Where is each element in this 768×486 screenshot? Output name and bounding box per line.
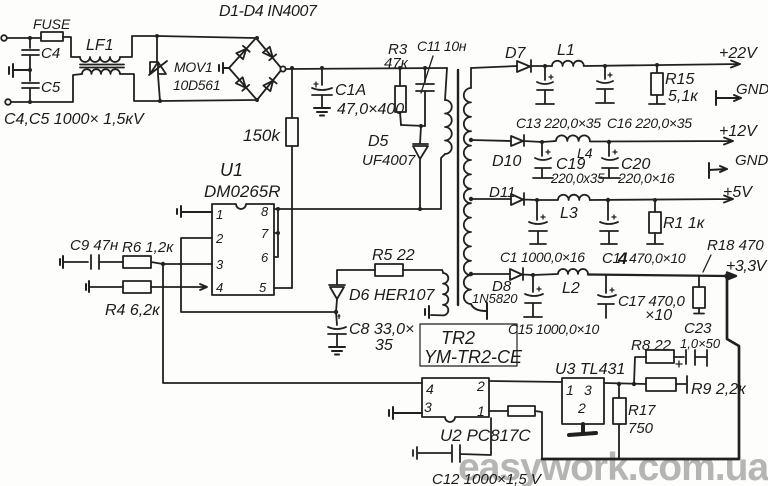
transformer TR2 primary <box>445 68 447 100</box>
wire +12V rail with arrow <box>590 138 733 145</box>
wire thick 3.3V feedback <box>542 276 739 459</box>
wire sec tap to D8 <box>471 273 510 275</box>
svg-text:C23: C23 <box>684 320 712 337</box>
transformer TR2 secondary <box>470 68 472 88</box>
capacitor C19 <box>546 150 550 154</box>
wire R3 C11 join <box>401 125 425 126</box>
svg-text:D5: D5 <box>368 133 389 150</box>
transformer TR2 aux winding <box>431 270 448 315</box>
ground U2 pin3 <box>389 407 422 419</box>
diode D3 <box>236 77 249 90</box>
svg-text:7: 7 <box>261 226 269 241</box>
svg-text:C1A: C1A <box>335 82 366 99</box>
wire drain line <box>278 208 441 210</box>
svg-text:R15: R15 <box>665 71 694 88</box>
svg-text:U1: U1 <box>220 160 243 180</box>
svg-text:D7: D7 <box>505 45 527 62</box>
svg-text:×10: ×10 <box>645 307 672 324</box>
svg-text:220,0х35: 220,0х35 <box>550 171 605 186</box>
svg-text:8: 8 <box>261 204 269 219</box>
capacitor C13 <box>549 75 553 79</box>
svg-text:5,1к: 5,1к <box>668 88 699 105</box>
wire sec top to D7 <box>471 66 517 68</box>
svg-text:3: 3 <box>216 257 224 272</box>
svg-text:UF4007: UF4007 <box>362 152 416 169</box>
svg-text:R9 2,2к: R9 2,2к <box>691 381 747 398</box>
wire 150k to pin5 <box>291 146 293 288</box>
svg-text:TR2: TR2 <box>441 328 475 348</box>
svg-text:C5: C5 <box>41 79 61 96</box>
ground pin1 <box>177 206 212 217</box>
capacitor C20 <box>613 150 617 154</box>
wire bus to bridge bottom <box>160 100 257 101</box>
capacitor C23 <box>674 350 707 366</box>
svg-text:2: 2 <box>476 378 485 394</box>
svg-text:C11 10н: C11 10н <box>417 38 467 54</box>
svg-text:L1: L1 <box>557 42 575 59</box>
secondary return terminal <box>471 303 487 319</box>
wire pin3 FB <box>163 263 212 265</box>
capacitor C16 <box>608 73 612 77</box>
wire sec tap to D10 <box>471 140 511 141</box>
transformer core <box>457 70 459 305</box>
svg-text:C4,C5 1000× 1,5кV: C4,C5 1000× 1,5кV <box>4 111 145 128</box>
node bridge + output <box>280 66 285 71</box>
svg-text:R8 22: R8 22 <box>631 337 672 354</box>
svg-text:470,0×10: 470,0×10 <box>629 250 686 266</box>
svg-text:6: 6 <box>261 250 269 265</box>
svg-text:FUSE: FUSE <box>33 16 71 32</box>
resistor R4 <box>86 281 89 292</box>
svg-text:3: 3 <box>424 399 432 415</box>
wire U3 cathode node <box>604 383 646 384</box>
capacitor C14 <box>612 215 616 219</box>
svg-text:1N5820: 1N5820 <box>472 291 518 306</box>
diode D2 <box>263 47 276 60</box>
capacitor C17 <box>610 288 614 292</box>
wire LF1 top to bus <box>120 36 157 57</box>
svg-text:2: 2 <box>215 231 224 246</box>
resistor 150k <box>291 68 293 118</box>
wire fuse to LF1 <box>63 37 80 57</box>
svg-text:+3,3V: +3,3V <box>726 258 768 275</box>
ground U3 <box>569 424 596 435</box>
svg-text:1: 1 <box>566 382 574 398</box>
svg-text:47к: 47к <box>384 55 409 72</box>
fuse FUSE <box>41 32 63 41</box>
svg-text:+5V: +5V <box>723 184 753 201</box>
svg-text:GND: GND <box>736 81 768 98</box>
svg-text:MOV1: MOV1 <box>174 59 212 75</box>
svg-text:4: 4 <box>617 249 628 268</box>
wire LF1 bottom to bus <box>120 74 160 101</box>
svg-text:C4: C4 <box>41 45 60 62</box>
ground GND 12V <box>709 163 727 178</box>
svg-text:D10: D10 <box>492 153 521 170</box>
svg-text:R6 1,2к: R6 1,2к <box>122 239 174 256</box>
svg-text:2: 2 <box>577 400 586 416</box>
wire +5V rail with arrow <box>590 196 733 203</box>
resistor R9 <box>646 378 676 391</box>
diode D1 <box>236 46 249 59</box>
svg-text:C1 1000,0×16: C1 1000,0×16 <box>500 249 585 265</box>
svg-text:R4 6,2к: R4 6,2к <box>105 302 161 319</box>
capacitor C8 <box>338 315 340 319</box>
svg-text:+12V: +12V <box>719 123 758 140</box>
svg-text:750: 750 <box>628 420 654 437</box>
svg-text:DM0265R: DM0265R <box>204 182 281 201</box>
capacitor C12 <box>413 418 491 462</box>
svg-text:L2: L2 <box>562 280 580 297</box>
resistor R7 <box>508 406 535 416</box>
diode D4 <box>263 78 276 91</box>
wire U2 pin2 to U3 <box>489 381 562 382</box>
svg-text:C13 220,0×35: C13 220,0×35 <box>516 115 601 131</box>
secondary tap junctions <box>469 138 473 142</box>
svg-text:LF1: LF1 <box>86 37 114 54</box>
svg-text:C9 47н: C9 47н <box>70 237 118 254</box>
inductor L2 <box>533 269 588 275</box>
svg-text:R1 1к: R1 1к <box>663 215 706 232</box>
inductor L3 <box>537 195 590 200</box>
svg-text:5: 5 <box>259 280 267 295</box>
pointer line C11 <box>421 56 433 93</box>
svg-text:+22V: +22V <box>719 45 758 62</box>
bridge rectifier frame <box>229 38 282 100</box>
varistor MOV1 <box>155 34 159 38</box>
wire +22V rail with arrow <box>545 61 740 68</box>
capacitor C5 <box>22 70 39 102</box>
svg-text:1,0×50: 1,0×50 <box>680 336 721 351</box>
wire pin4 sense with arrow <box>151 284 207 290</box>
ground aux winding <box>425 306 429 318</box>
wire N input <box>11 74 82 102</box>
svg-text:4: 4 <box>216 280 223 295</box>
svg-text:3: 3 <box>584 382 592 398</box>
svg-text:150k: 150k <box>243 126 281 145</box>
svg-text:C12 1000×1,5 V: C12 1000×1,5 V <box>432 471 543 486</box>
wire feedback from U1 pin3 to U2 <box>163 264 422 383</box>
capacitor C1A <box>312 68 332 107</box>
svg-text:10D561: 10D561 <box>173 77 220 93</box>
svg-text:4: 4 <box>426 381 434 397</box>
svg-text:C16 220,0×35: C16 220,0×35 <box>607 115 692 131</box>
wire pin2 VCC <box>181 238 336 312</box>
ground (mains common) <box>9 64 30 77</box>
svg-text:C15 1000,0×10: C15 1000,0×10 <box>508 321 600 337</box>
resistor R1 <box>654 200 656 212</box>
svg-text:35: 35 <box>375 337 393 354</box>
wire pins 8-7-6 tie <box>274 209 278 257</box>
wire U2 pin1 <box>489 410 508 412</box>
resistor R15 <box>656 65 658 73</box>
svg-text:D6 HER107: D6 HER107 <box>349 287 435 304</box>
inductor L4 <box>542 135 590 142</box>
wire pin5 to 150k <box>274 287 292 289</box>
capacitor C4 <box>22 38 39 70</box>
svg-text:1: 1 <box>216 207 223 222</box>
ground C1A <box>314 108 330 116</box>
optocoupler U2 <box>422 378 489 422</box>
wire +3.3V rail with arrow <box>588 273 736 280</box>
wire main DC rail <box>286 68 447 69</box>
node junction <box>28 36 32 40</box>
svg-text:D1-D4 IN4007: D1-D4 IN4007 <box>219 3 318 20</box>
label TR2 box <box>420 324 517 366</box>
input terminal N <box>5 99 11 105</box>
capacitor C15 <box>537 287 541 291</box>
svg-text:C8 33,0×: C8 33,0× <box>349 321 414 338</box>
svg-text:R17: R17 <box>628 402 656 419</box>
svg-text:R18 470: R18 470 <box>707 237 764 254</box>
resistor R18 <box>698 276 700 287</box>
input terminal L <box>1 35 7 41</box>
svg-text:GND: GND <box>735 152 768 169</box>
svg-text:L3: L3 <box>560 205 578 222</box>
capacitor C1 <box>541 215 545 219</box>
svg-text:U2 PС817С: U2 PС817С <box>440 426 531 445</box>
wire L input <box>7 37 41 39</box>
svg-text:220,0×16: 220,0×16 <box>617 170 675 186</box>
svg-text:1: 1 <box>477 403 485 419</box>
pointer line R18 <box>703 255 711 272</box>
svg-text:YM-TR2-CE: YM-TR2-CE <box>424 347 523 367</box>
svg-text:R5 22: R5 22 <box>372 247 415 264</box>
resistor R17 <box>618 384 620 398</box>
svg-text:U3 TL431: U3 TL431 <box>555 361 625 378</box>
ground GND 22V <box>716 91 741 105</box>
ground C8 <box>329 347 345 355</box>
node mark at bridge AC node <box>219 63 229 73</box>
wire bus to bridge top <box>157 36 256 38</box>
wire sec tap to D11 <box>471 198 511 200</box>
